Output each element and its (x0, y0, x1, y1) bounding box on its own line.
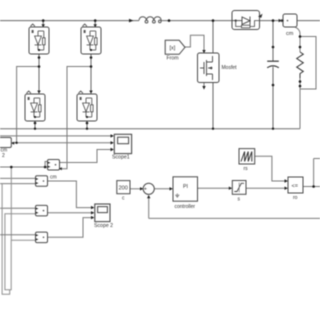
svg-text:c: c (122, 196, 125, 202)
svg-text:rs: rs (244, 166, 249, 172)
svg-text:PI: PI (183, 184, 188, 190)
svg-text:Scope1: Scope1 (112, 155, 130, 161)
svg-text:cm: cm (50, 175, 57, 181)
svg-text:controller: controller (175, 204, 196, 210)
svg-text:s: s (238, 197, 241, 203)
svg-text:200: 200 (119, 186, 128, 192)
svg-text:[x]: [x] (170, 46, 176, 52)
svg-text:cm: cm (286, 31, 294, 37)
svg-text:<=: <= (292, 184, 298, 190)
svg-text:From: From (167, 56, 179, 62)
svg-text:-: - (147, 192, 149, 198)
svg-text:2: 2 (2, 153, 5, 159)
svg-text:Mosfet: Mosfet (222, 65, 238, 71)
svg-text:ro: ro (293, 195, 298, 201)
svg-text:Scope 2: Scope 2 (94, 223, 113, 229)
